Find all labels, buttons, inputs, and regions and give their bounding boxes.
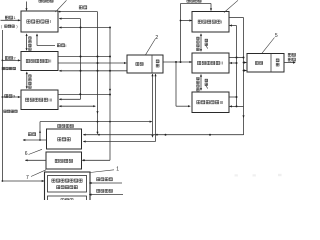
wire: V5 vertical bus x=243.5 down to treatment line: [243, 18, 245, 136]
wire: sludge-return double arrow between aerobic I and II: [200, 34, 202, 51]
label: household waste: [97, 189, 100, 192]
label: solid waste 2: [5, 56, 8, 59]
wire: reactor III out y=94.5 to V3: [58, 94, 110, 96]
svg-text:7: 7: [26, 175, 29, 181]
svg-text:II: II: [220, 61, 222, 66]
wire: top input into reactor I with clipped label: [26, 2, 28, 11]
wire: aerobic II out y=57.5: [229, 57, 244, 59]
box: aerobic reactor II: [192, 53, 229, 73]
label: vertical biogas-return text gap2: [29, 75, 32, 78]
svg-text:5: 5: [275, 33, 278, 39]
wire: return into reactor I right edge y=27.5 from V3: [59, 27, 110, 29]
label: air vertical gap2 with feed tick: [205, 79, 208, 82]
faint watermark smudges bottom right: [235, 174, 238, 176]
box: kitchen-waste pretreatment inner box: [48, 176, 87, 193]
box: bold outer pretreatment unit: [45, 172, 91, 206]
label: kitchen waste: [97, 178, 100, 181]
wire: riser to aerobic reactor I left input: [180, 4, 182, 63]
wire: tank outlet to aerobic reactor II: [163, 61, 192, 63]
svg-text:II: II: [49, 59, 51, 64]
label: agent I: [57, 44, 60, 47]
wire: V5 branches into final tank: [244, 62, 247, 64]
wire: top line into aerobic reactor I top: [181, 3, 212, 5]
label: note composting-done under solid waste 2: [2, 67, 5, 70]
wire: V4 vertical bus x=236.5: [236, 26, 238, 107]
wire: agent I feed up into reactor I bottom: [36, 34, 38, 45]
wire: recycle riser x=40 and recycle line to tank riser: [39, 122, 41, 140]
wire: reactor III line y=105.8 into V2 bus: [59, 105, 95, 107]
wire: reactor II out y=63 into settling tank: [58, 62, 126, 64]
box: clear-water and disinfection tank 2: [127, 55, 163, 73]
wire: return from tank into reactor II y=70.8: [59, 70, 127, 72]
wire: V2 vertical bus x=97.5: [97, 12, 99, 134]
label: recycle-use under line: [58, 124, 61, 127]
svg-text:1: 1: [116, 166, 119, 172]
wire: household waste input line: [89, 194, 123, 196]
label: vertical biogas-return text gap1: [29, 37, 32, 40]
wire: return into aerobic II y=63: [230, 62, 237, 64]
svg-text:2: 2: [155, 35, 158, 41]
leader line to off-canvas digit 4: [224, 0, 238, 12]
label: solid waste 1: [5, 16, 8, 19]
wire: long treatment collection line y=134.7 from V5: [83, 134, 243, 136]
wire: return into reactor I right edge y=18.6 from V1: [59, 18, 80, 20]
wire: aerobic III out y=97: [229, 96, 237, 98]
leader line and digit 6: [29, 149, 43, 154]
wire: aerobic I out y=17.5 to V5: [229, 17, 244, 19]
label: air vertical gap1 with feed tick: [205, 39, 208, 42]
wire: drop to aerobic reactor III left input: [175, 62, 177, 106]
svg-text:I: I: [221, 19, 222, 24]
wire: feed solid waste 3 into anaerobic reactor III: [2, 96, 20, 98]
wire: return into aerobic III y=106.4: [230, 105, 244, 107]
box: water treatment unit 6: [47, 129, 82, 149]
box: final clear-water and disinfection tank 5: [247, 54, 284, 73]
leader line and digit 2: [146, 39, 156, 55]
wire: discharge arrow to left: [23, 139, 47, 141]
wire: V1 bottom return into reactor III y=99.3: [59, 98, 80, 100]
wire: biogas out arrow left: [25, 159, 46, 161]
leader line and digit 5: [262, 38, 275, 54]
wire: sludge-return double arrow between aerobic II and III: [200, 75, 202, 90]
wire: V3 vertical bus x=110: [109, 28, 111, 161]
wire: feed solid waste 1 into anaerobic reactor I: [1, 19, 21, 21]
wire: tank bottom risers from recycle lines: [152, 74, 154, 136]
label: discharge: [28, 133, 31, 136]
box: aerobic reactor III: [192, 92, 229, 113]
wire: reactor II out y=56.5 to V3: [58, 56, 110, 58]
svg-text:I: I: [65, 43, 66, 48]
leader line and digit 1: [90, 170, 114, 173]
svg-text:I: I: [50, 19, 51, 24]
svg-text:III: III: [48, 97, 52, 102]
wire: biogas feed from V3 bus into unit: [82, 159, 111, 161]
wire: V4 return into aerobic I y=25.5: [230, 25, 237, 27]
wire: kitchen waste input line: [89, 182, 122, 184]
label: reuse two-line text: [288, 53, 291, 56]
label: wastewater: [79, 6, 82, 9]
label: solid waste 3: [5, 94, 8, 97]
label: note feeding-in-progress under solid waste 3: [4, 110, 7, 113]
wire: recirculation double-arrow between reactor II and III: [26, 72, 28, 88]
wire: reuse output arrow: [284, 62, 295, 64]
wire: V1 vertical bus x=80.5: [80, 19, 82, 100]
wire: biogas recirculation double-arrow between reactor I and II: [26, 34, 28, 50]
box: aerobic reactor I: [192, 12, 229, 33]
wire: recycled solid-waste feed bus (left edge vertical): [1, 30, 3, 181]
box: biogas utilization unit 7: [46, 152, 82, 169]
leader line and digit 7: [31, 170, 46, 177]
label: clipped excess-sludge text at top: [187, 0, 190, 2]
svg-text:6: 6: [25, 151, 28, 157]
svg-text:): ): [16, 25, 17, 29]
svg-text:III: III: [220, 100, 224, 105]
wire: wastewater line from reactor I top corner to V2 bus: [58, 11, 98, 13]
wire: feed solid waste 2 into anaerobic reactor II: [2, 59, 20, 61]
box: anaerobic reactor III: [21, 90, 58, 110]
leader line to off-canvas digit 3: [56, 0, 67, 12]
box: incinerator inner box (clipped): [48, 196, 87, 208]
box: anaerobic reactor I: [21, 11, 58, 32]
box: anaerobic reactor II: [21, 52, 58, 71]
